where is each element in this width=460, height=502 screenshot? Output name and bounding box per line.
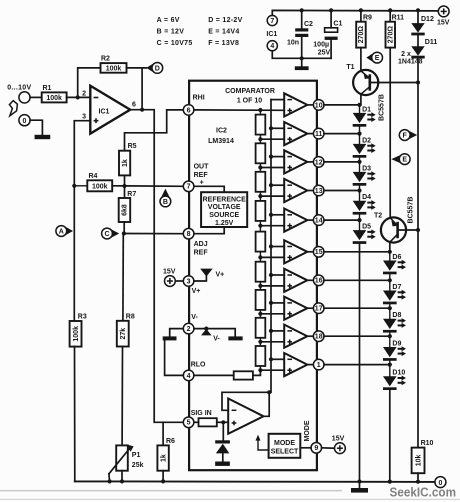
svg-text:D3: D3 [362,165,371,172]
svg-text:RHI: RHI [193,94,205,101]
wire IC1 output to SIG IN [130,110,183,423]
svg-text:0: 0 [23,118,27,125]
svg-text:6k8: 6k8 [122,204,129,216]
svg-text:100k: 100k [73,326,80,342]
svg-text:15V: 15V [437,19,450,26]
svg-text:4: 4 [270,43,274,50]
LED D3 [353,165,376,185]
LED D7 [383,284,406,304]
junction input node [76,95,80,99]
svg-text:F = 13V8: F = 13V8 [208,40,239,47]
wire R10 to rail [417,473,419,481]
svg-text:270Ω: 270Ω [388,26,395,44]
pin 13 [313,185,324,196]
junction divider tap 2 [258,165,262,169]
svg-text:OUT: OUT [194,164,210,171]
wire pin 17 to LED D8 [324,307,390,309]
wire divider segment 7a [259,288,261,290]
wire pin 2 to ground [170,329,184,337]
svg-text:5: 5 [187,420,191,427]
wire C1 bottom [330,40,332,58]
wire divider segment 8a [259,316,261,318]
wire divider segment 3a [259,170,261,172]
wire pin 13 to LED D4 [324,190,360,192]
wire tap 7 to comparator 8 + [260,313,284,315]
junction divider tap 5 [258,255,262,259]
wire divider segment 5a [259,228,261,232]
mode select box [269,434,301,458]
LED D1 [353,106,376,126]
ground input [35,135,51,139]
pin 8 ADJ REF [183,228,194,239]
pin 14 [313,215,324,226]
comparator 10 [284,353,307,376]
wire rail to ground [359,482,361,489]
wire to D1 [359,105,361,113]
svg-text:0...10V: 0...10V [7,85,31,92]
wire bus to comparator 6 - [271,246,284,248]
comparator 6 [284,240,307,263]
svg-text:V-: V- [191,314,198,321]
svg-text:B = 12V: B = 12V [157,28,185,35]
divider resistor 10 [234,371,253,379]
wire to D6 [389,252,391,261]
wire divider segment 1a [259,110,261,115]
wire mode select to pin 9 [300,447,311,449]
wire comparator 8 to pin 17 [307,307,313,309]
junction D7 anode [388,278,392,282]
svg-text:16: 16 [315,278,323,285]
junction bus comparator 9 [269,329,273,333]
wire bus to comparator 2 - [271,127,284,129]
junction bus comparator 4 [269,183,273,187]
junction divider tap 3 [258,194,262,198]
ground bottom rail [351,488,368,493]
wire divider segment 4a [259,198,261,201]
capacitor C2 [287,21,313,46]
svg-text:C1: C1 [333,20,342,27]
node E marker right [391,154,410,165]
node F marker [399,130,417,141]
divider resistor 7 [256,290,266,310]
LED D4 [353,194,376,214]
svg-text:RLO: RLO [191,362,206,369]
wire bus to comparator 10 - [271,358,284,360]
wire rail to R11 [389,10,391,21]
divider resistor 6 [256,262,266,282]
diode D11 [411,46,424,58]
wire D6 cathode [389,274,391,280]
pin 9 MODE [311,443,322,454]
wire divider bottom [253,370,261,375]
pin 11 [313,128,324,139]
resistor R10 [412,440,434,473]
wire to D7 [389,280,391,290]
svg-text:15V: 15V [332,435,345,442]
ground diode [215,462,230,466]
divider resistor 8 [256,318,266,338]
junction rail R10 [416,480,420,484]
svg-text:SeekIC.com: SeekIC.com [390,486,457,500]
comparator 1 [284,93,307,116]
wire comparator 7 to pin 16 [307,279,313,281]
wire D12 to D11 [417,36,419,46]
junction divider tap 1 [258,137,262,141]
svg-text:17: 17 [315,306,323,313]
resistor R3 [70,313,87,346]
wire RHI to divider top and comparator 1 + [194,109,284,111]
wire C2 top [301,10,303,28]
svg-text:D8: D8 [392,312,401,319]
junction D1 anode [357,103,361,107]
svg-text:COMPARATOR: COMPARATOR [225,88,275,95]
pin 5 SIG IN [183,417,194,428]
svg-text:E = 14V4: E = 14V4 [208,28,239,35]
wire pin 18 to LED D9 [324,335,390,337]
wire P1 bottom to rail [121,471,123,482]
wire P1 wiper to rail [108,474,111,481]
wire bus to comparator 3 - [271,156,284,158]
transistor T2 [381,217,406,242]
wire tap 4 to comparator 5 + [260,225,284,227]
svg-text:T2: T2 [374,212,382,219]
LED D10 [383,370,406,390]
wire D10 cathode to bottom rail [389,390,391,482]
svg-text:VOLTAGE: VOLTAGE [208,204,241,211]
junction bus comparator 7 [269,273,273,277]
comparator 2 [284,122,307,145]
junction D8 anode [388,306,392,310]
wire to D3 [359,162,361,172]
wire junction up to R2 [78,68,101,98]
pin 12 [313,157,324,168]
wire pin 15 to LED D6 [324,251,390,253]
wire D4 cathode [359,215,361,221]
wire tap 6 to comparator 7 + [260,285,284,287]
junction rail C2 [300,8,304,12]
svg-text:270Ω: 270Ω [358,26,365,44]
wire rail to D12 [417,10,419,23]
wire divider segment 1b [259,135,261,140]
junction rail D5 chain [357,479,361,483]
wire R5 bottom to R7 [124,175,126,198]
wire D5 cathode to bottom rail [359,244,361,482]
wire pin 3 to V+ arrow [194,276,206,281]
wire IC1 pin 3 down [74,121,90,321]
svg-text:V+: V+ [192,288,201,295]
svg-text:E: E [402,157,407,164]
wire node C down to R8 [122,234,124,321]
junction IC1 output [140,108,144,112]
junction R4 R5 R7 [122,184,126,188]
wire tap 5 to comparator 6 + [260,256,284,258]
junction D6 anode [388,250,392,254]
wire pin 11 to LED D2 [324,133,360,135]
resistor R11 [386,14,405,47]
wire D1 cathode [359,127,361,134]
svg-text:D10: D10 [392,370,405,377]
svg-text:SIG IN: SIG IN [191,410,212,417]
junction divider top [258,108,262,112]
svg-text:D7: D7 [392,284,401,291]
wire bias rail vertical [417,59,419,448]
plug symbol [9,101,17,116]
pin 6 RHI [183,105,194,116]
wire T2 base to bias rail [399,229,418,231]
resistor R5 [119,143,137,175]
pin 16 [313,275,324,286]
resistor R7 [119,191,137,222]
wire T1 base to bias rail [370,82,418,84]
svg-text:9: 9 [314,445,318,452]
wire D9 cathode [389,361,391,365]
pin 10 [313,100,324,111]
svg-text:P1: P1 [132,452,141,459]
svg-text:BC557B: BC557B [379,94,386,121]
wire pin 9 to 15V [322,447,335,449]
svg-text:B: B [163,199,168,206]
svg-text:R9: R9 [363,14,372,21]
node E marker top [366,52,382,63]
junction D3 anode [357,160,361,164]
junction bus comparator 2 [269,126,273,130]
wire to supply ground [301,58,303,66]
wire rail to R9 [360,10,362,21]
junction buffer output bus [267,390,271,394]
wire input resistor to buffer + [217,421,228,423]
wire divider segment 8b [259,338,261,342]
scan artifact line 2 [0,498,460,500]
svg-text:V-: V- [213,335,220,342]
wire R6 to rail [162,471,164,482]
svg-text:25k: 25k [132,462,144,469]
protection diode [215,440,230,453]
svg-text:12: 12 [315,159,323,166]
junction divider tap 6 [258,284,262,288]
wire divider resistor 10 to pin 4 [194,374,234,376]
wire to D2 [359,134,361,144]
wire tap 9 to comparator 10 + [260,369,284,371]
svg-text:2 x: 2 x [401,51,411,58]
V- supply arrow [201,329,220,343]
wire bus to comparator 8 - [271,302,284,304]
wire comparator 2 to pin 11 [307,133,313,135]
svg-text:1: 1 [317,362,321,369]
wire divider segment 9b [259,366,261,370]
svg-text:C: C [104,231,109,238]
node D marker [146,63,162,74]
pin 1 [313,359,324,370]
svg-text:1.25V: 1.25V [215,220,234,227]
svg-text:REF: REF [194,249,209,256]
comparator 8 [284,297,307,320]
junction divider tap 7 [258,312,262,316]
divider resistor 3 [256,172,266,192]
reference voltage source box [201,192,247,227]
wire tap 3 to comparator 4 + [260,195,284,197]
wire SIG IN line to R6 [162,422,164,445]
divider resistor 9 [256,346,266,366]
pin 3 V+ [183,276,194,287]
svg-text:8: 8 [187,231,191,238]
ground pin 2 right [228,336,242,340]
junction R4 left [72,184,76,188]
wire pin 7 to ref source [194,186,224,192]
wire comparator 5 to pin 14 [307,219,313,221]
terminal 0 [19,115,30,126]
input terminal [19,92,30,103]
svg-text:14: 14 [315,218,323,225]
svg-text:100k: 100k [106,66,122,73]
svg-text:D9: D9 [392,340,401,347]
wire IC1 pin 4 to capacitors [272,51,331,59]
wire divider segment 6b [259,282,261,286]
svg-text:V+: V+ [216,271,225,278]
wire diode to ground [222,453,224,461]
wire bus to comparator 1 - [271,99,284,101]
wire R5 top to pin 6 RHI [125,110,184,151]
junction rail P1 wiper [108,479,112,483]
junction C2 bottom [300,56,304,60]
svg-text:25V: 25V [318,50,331,57]
svg-text:15: 15 [315,249,323,256]
junction D9 anode [388,334,392,338]
wire input to R1 [30,96,42,98]
junction rail R9 [359,8,363,12]
svg-text:R5: R5 [128,143,137,150]
diode D12 [411,23,424,35]
svg-text:R4: R4 [89,173,98,180]
svg-text:27k: 27k [120,328,127,340]
IC IC2 LM3914 box [189,81,317,471]
wire C1 top [330,10,332,27]
divider resistor 5 [256,232,266,252]
pin 7 OUT REF [183,181,194,192]
pin 17 [313,303,324,314]
wire to D8 [389,308,391,319]
svg-text:D: D [155,66,160,73]
svg-text:11: 11 [315,131,323,138]
comparator 9 [284,325,307,348]
wire bus to comparator 9 - [271,330,284,332]
buffer op-amp [228,399,263,434]
junction node C [122,231,126,235]
svg-text:C = 10V75: C = 10V75 [157,40,193,47]
svg-text:2: 2 [187,326,191,333]
svg-text:ADJ: ADJ [194,241,208,248]
resistor R8 [117,313,135,346]
svg-text:R11: R11 [392,14,405,21]
svg-text:D12: D12 [421,16,434,23]
junction V- arrow [204,327,208,331]
junction bus comparator 6 [269,244,273,248]
wire to R4 [74,185,87,187]
pin 7 IC1 supply [267,15,277,25]
svg-text:D = 12-2V: D = 12-2V [208,17,242,24]
wire tap 8 to comparator 9 + [260,341,284,343]
wire R8 to P1 [121,347,123,446]
svg-text:R6: R6 [166,438,175,445]
svg-text:D1: D1 [362,106,371,113]
svg-text:D2: D2 [362,137,371,144]
wire divider segment 2b [259,163,261,167]
svg-text:2: 2 [82,91,86,98]
svg-text:D11: D11 [425,39,438,46]
op-amp IC1 [90,86,130,134]
resistor R9 [356,14,372,47]
comparator 4 [284,179,307,202]
wire bus to comparator 7 - [271,274,284,276]
resistor R1 [42,85,67,102]
wire bottom rail [75,480,435,483]
wire buffer feedback [222,392,269,416]
svg-text:LM3914: LM3914 [208,138,234,145]
svg-text:4: 4 [187,373,191,380]
mode select arrow [256,435,269,450]
svg-text:IC2: IC2 [216,128,227,135]
svg-text:100µ: 100µ [313,41,329,48]
wire divider segment 6a [259,259,261,261]
svg-text:100k: 100k [92,183,108,190]
svg-text:D5: D5 [362,224,371,231]
supply 15V top [437,6,450,26]
supply 15V mode [332,435,346,453]
wire pin 4 to ground [165,340,184,375]
divider resistor 1 [256,115,266,135]
svg-text:1N4148: 1N4148 [398,59,423,66]
junction D5 anode [357,218,361,222]
wire comparator 9 to pin 18 [307,335,313,337]
junction bus comparator 3 [269,155,273,159]
wire R1 to IC1 pin 2 [67,96,91,98]
V+ supply arrow [200,269,224,279]
wire comparator 6 to pin 15 [307,251,313,253]
transistor T1 [353,70,378,95]
LED D6 [383,254,406,274]
wire feedback vertical [141,68,143,110]
svg-text:MODE: MODE [304,420,311,441]
svg-text:F: F [403,133,408,140]
wire terminal 0 to ground [30,120,42,135]
wire divider segment 5b [259,252,261,258]
svg-text:3: 3 [187,278,191,285]
svg-text:BC557B: BC557B [408,197,415,224]
svg-text:R1: R1 [43,85,52,92]
wire R3 to bottom rail [74,347,76,482]
wire to D4 [359,191,361,201]
svg-text:+: + [200,179,204,186]
ground supply [295,66,309,70]
wire D2 cathode [359,158,361,162]
wire to D9 [389,336,391,347]
junction rail D10 chain [388,480,392,484]
svg-text:R2: R2 [101,56,110,63]
junction divider tap 8 [258,340,262,344]
pin 2 V- [183,323,194,334]
wire pin 10 to LED D1 [324,104,360,106]
wire tap 2 to comparator 3 + [260,167,284,169]
wire to D10 [389,365,391,377]
resistor buffer input [199,418,217,426]
svg-text:A: A [59,229,64,236]
wire divider segment 3b [259,192,261,196]
svg-text:A = 6V: A = 6V [157,17,180,24]
svg-text:D6: D6 [392,254,401,261]
junction D4 anode [357,188,361,192]
wire R11 to T2 emitter rail [389,48,391,218]
junction rail R11 [388,8,392,12]
wire divider segment 4b [259,221,261,226]
